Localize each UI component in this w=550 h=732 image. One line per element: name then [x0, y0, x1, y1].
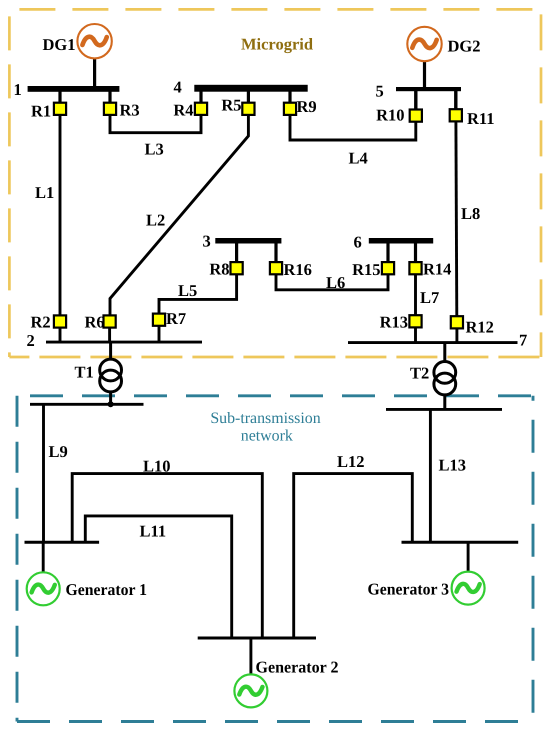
- wire L6 (R16 to R15): [276, 274, 388, 290]
- junction dot T1: [108, 401, 114, 407]
- svg-text:L13: L13: [439, 456, 467, 475]
- wire DG2 stem: [423, 60, 426, 88]
- svg-text:2: 2: [27, 331, 35, 350]
- relay R9: [284, 97, 317, 116]
- svg-text:R10: R10: [376, 106, 404, 125]
- svg-text:Generator 1: Generator 1: [66, 580, 148, 599]
- relay R1: [31, 102, 66, 121]
- svg-text:4: 4: [174, 78, 182, 97]
- wire L12: [294, 452, 413, 638]
- svg-text:T1: T1: [75, 363, 94, 382]
- svg-text:5: 5: [376, 82, 384, 101]
- svg-text:Generator 2: Generator 2: [256, 658, 339, 677]
- wire bus3 to R16 stub: [274, 242, 277, 262]
- generator 2 symbol: [234, 658, 338, 708]
- bus 4: [174, 78, 308, 97]
- wire L10: [72, 457, 262, 639]
- svg-text:L7: L7: [420, 288, 439, 307]
- wire R13 to bus7: [414, 327, 417, 342]
- bus 3: [203, 232, 282, 251]
- wire generator 1 stem: [42, 542, 45, 573]
- svg-text:L10: L10: [143, 457, 171, 476]
- svg-text:Sub-transmission: Sub-transmission: [210, 410, 320, 427]
- svg-text:1: 1: [14, 80, 22, 99]
- svg-text:DG2: DG2: [448, 37, 481, 56]
- svg-text:L11: L11: [140, 522, 167, 541]
- wire bus4 to R5 stub: [247, 90, 250, 103]
- svg-text:L9: L9: [49, 442, 68, 461]
- generator 1 symbol: [27, 572, 147, 605]
- svg-text:R15: R15: [352, 260, 380, 279]
- wire R7 to bus2: [158, 326, 161, 342]
- bus 2: [27, 331, 203, 350]
- generator 3 symbol: [368, 572, 485, 605]
- wire generator 2 stem: [249, 638, 252, 676]
- svg-text:L6: L6: [326, 273, 345, 292]
- generator 1 bus: [25, 541, 100, 544]
- wire L4 (R9 to R10): [290, 115, 416, 141]
- bus 6: [354, 233, 434, 252]
- wire L11: [85, 516, 231, 638]
- DG2 source symbol: [407, 27, 480, 61]
- wire bus4 to R9 stub: [288, 90, 291, 103]
- svg-text:R7: R7: [166, 309, 186, 328]
- svg-text:R5: R5: [221, 96, 241, 115]
- svg-text:DG1: DG1: [43, 35, 76, 54]
- relay R12: [451, 316, 494, 336]
- DG1 source symbol: [43, 24, 112, 58]
- svg-text:R2: R2: [31, 313, 51, 332]
- relay R15: [352, 260, 394, 279]
- left sub-transmission bus: [30, 403, 144, 406]
- bus 1: [14, 80, 120, 99]
- svg-text:R14: R14: [423, 260, 451, 279]
- svg-text:network: network: [241, 428, 293, 445]
- wire bus6 to R15 stub: [386, 242, 389, 262]
- label Sub-transmission network: [210, 410, 320, 445]
- svg-text:R6: R6: [85, 313, 105, 332]
- svg-text:T2: T2: [410, 364, 429, 383]
- relay R6: [85, 313, 116, 332]
- relay R10: [376, 106, 422, 125]
- wire bus1 to R1 stub: [58, 90, 61, 103]
- svg-text:R3: R3: [120, 101, 140, 120]
- transformer T1: [75, 359, 122, 392]
- wire bus5 to R10 stub: [414, 90, 417, 110]
- wire bus4 to R4 stub: [199, 90, 202, 103]
- wire L1 (R1 to R2): [59, 115, 62, 317]
- svg-text:7: 7: [519, 331, 527, 350]
- relay R7: [153, 309, 186, 328]
- wire bus1 to R3 stub: [108, 90, 111, 103]
- svg-text:Generator 3: Generator 3: [368, 580, 450, 599]
- wire L13: [430, 409, 466, 542]
- wire R2 to bus2: [59, 328, 62, 343]
- wire L8 (R11 to R12): [454, 121, 458, 316]
- transformer T2: [410, 362, 456, 395]
- wire T1 stem (bus2 to left sub bus): [109, 342, 112, 404]
- svg-text:L5: L5: [178, 281, 197, 300]
- right sub-transmission bus: [386, 408, 502, 411]
- svg-text:R8: R8: [209, 260, 229, 279]
- wire L5 (R8 to R7): [159, 274, 237, 314]
- wire bus5 to R11 stub: [454, 90, 457, 110]
- relay R16: [270, 260, 312, 279]
- wire T2 stem (bus7 to right sub bus): [443, 343, 446, 410]
- wire L7 (R14 to R13): [414, 274, 417, 315]
- microgrid dashed boundary box: [9, 9, 541, 357]
- wire L3 (R3 to R4): [110, 115, 201, 133]
- wire L9: [44, 404, 68, 542]
- relay R3: [104, 101, 140, 120]
- wire generator 3 stem: [467, 542, 470, 573]
- svg-text:R16: R16: [284, 260, 312, 279]
- svg-text:6: 6: [354, 233, 362, 252]
- svg-text:L4: L4: [349, 149, 368, 168]
- relay R4: [173, 101, 207, 120]
- svg-text:R11: R11: [467, 109, 495, 128]
- svg-text:R9: R9: [297, 97, 317, 116]
- svg-text:R1: R1: [31, 102, 51, 121]
- svg-text:3: 3: [203, 232, 211, 251]
- wire bus3 to R8 stub: [235, 242, 238, 262]
- relay R2: [31, 313, 67, 332]
- relay R5: [221, 96, 254, 115]
- generator 2 bus: [198, 636, 316, 639]
- wire bus6 to R14 stub: [414, 242, 417, 262]
- wire R6 to bus2: [108, 328, 111, 343]
- relay R8: [209, 260, 242, 279]
- svg-text:L12: L12: [337, 452, 365, 471]
- relay R13: [380, 313, 422, 332]
- svg-text:L2: L2: [146, 211, 165, 230]
- bus 5: [376, 82, 462, 101]
- wire DG1 stem: [93, 57, 96, 87]
- generator 3 bus: [402, 541, 519, 544]
- sub-transmission dashed boundary box: [17, 396, 533, 722]
- svg-text:L1: L1: [35, 183, 54, 202]
- svg-text:Microgrid: Microgrid: [241, 35, 313, 54]
- svg-text:R13: R13: [380, 313, 408, 332]
- svg-text:R12: R12: [466, 318, 494, 337]
- svg-text:L3: L3: [145, 140, 164, 159]
- wire L2 (R5 to R6, diagonal): [110, 115, 248, 317]
- svg-text:R4: R4: [173, 101, 193, 120]
- svg-text:L8: L8: [461, 204, 480, 223]
- bus 7: [348, 331, 527, 350]
- relay R14: [409, 260, 451, 279]
- relay R11: [450, 109, 495, 128]
- wire R12 to bus7: [455, 328, 458, 342]
